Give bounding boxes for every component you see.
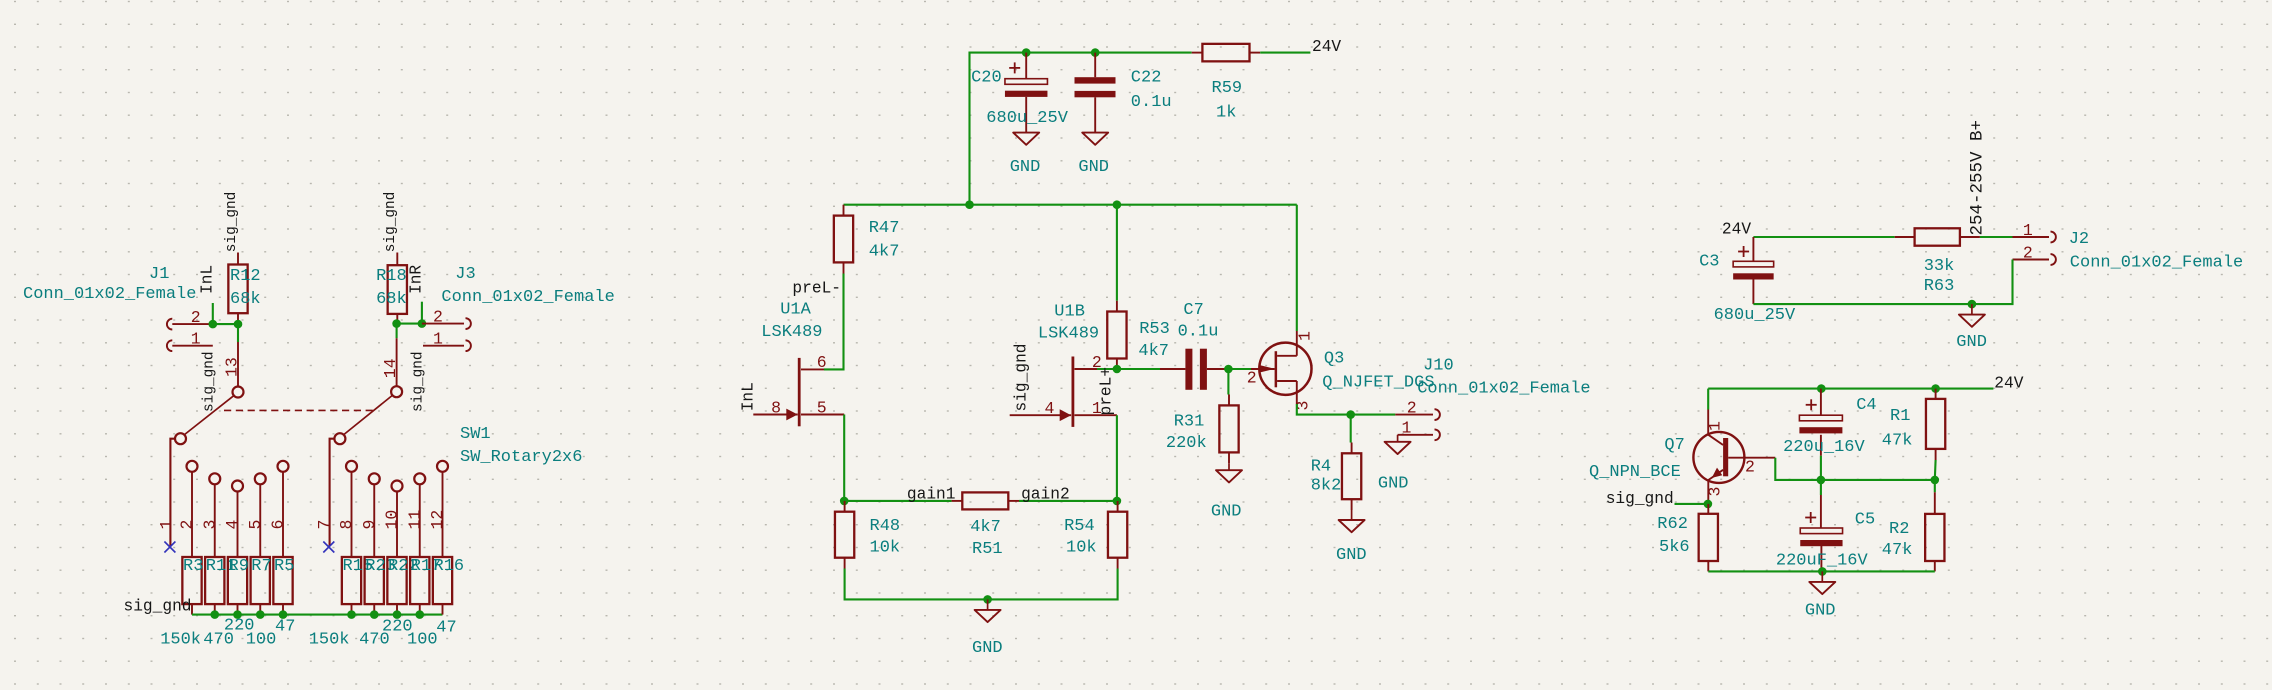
no-connect at SW1 pin 1 bbox=[164, 542, 175, 553]
wire 24V rail right bottom bbox=[1708, 388, 1993, 390]
svg-text:1: 1 bbox=[1706, 421, 1725, 431]
value 47 of R5 bbox=[275, 618, 295, 637]
junction on sig_gnd bus bbox=[233, 610, 242, 619]
junction at J1 pin 2 bbox=[209, 320, 218, 329]
pin number 2 of Q7 bbox=[1745, 457, 1755, 476]
svg-text:sig_gnd: sig_gnd bbox=[1606, 490, 1674, 508]
svg-text:R7: R7 bbox=[251, 557, 271, 576]
junction divider at R1 bottom bbox=[1931, 476, 1940, 485]
U1A source pin 5 bbox=[801, 414, 844, 416]
svg-text:J2: J2 bbox=[2069, 230, 2089, 249]
label J1 bbox=[149, 265, 169, 284]
label R17 bbox=[411, 557, 442, 576]
mechanical link dashed line of SW1 bbox=[224, 409, 375, 411]
svg-text:InL: InL bbox=[739, 382, 757, 411]
junction at R12 bottom bbox=[234, 320, 243, 329]
value 680u_25V of C3 bbox=[1714, 306, 1796, 325]
svg-text:1: 1 bbox=[157, 520, 176, 530]
svg-text:R2: R2 bbox=[1889, 520, 1909, 539]
wire sig_gnd to Q7 emitter bbox=[1675, 503, 1708, 505]
svg-text:2: 2 bbox=[1407, 398, 1417, 417]
value 68k of R12 bbox=[230, 290, 261, 309]
svg-text:GND: GND bbox=[1956, 333, 1987, 352]
Q3 internal drain line bbox=[1277, 331, 1297, 356]
value 220 of R9 bbox=[224, 617, 255, 636]
resistor R16 bbox=[433, 557, 452, 615]
Q7 emitter with arrow bbox=[1708, 468, 1723, 504]
pin number 12 of SW1 bbox=[428, 510, 447, 530]
svg-text:C22: C22 bbox=[1131, 69, 1162, 88]
pin number 6 of U1A bbox=[817, 353, 827, 372]
pin number 2 of U1B bbox=[1092, 353, 1102, 372]
net label sig_gnd at Q7 emitter bbox=[1606, 490, 1674, 508]
switch SW1 wiper arm B bbox=[344, 396, 392, 435]
net label InR at J3 bbox=[408, 265, 426, 294]
switch SW1 common contact B circle bbox=[334, 433, 345, 444]
junction on sig_gnd bus bbox=[210, 610, 219, 619]
label C5 bbox=[1855, 511, 1875, 530]
ground symbol below C20 bbox=[1013, 133, 1039, 145]
svg-text:GND: GND bbox=[1805, 602, 1836, 621]
pin number 8 of U1A bbox=[771, 398, 781, 417]
svg-text:4: 4 bbox=[223, 520, 242, 530]
label GND right block bbox=[1805, 602, 1836, 621]
pin number 7 of SW1 bbox=[315, 520, 334, 530]
resistor R59 bbox=[1192, 44, 1261, 62]
switch SW1 pin 14 bbox=[396, 338, 398, 386]
connector J1 pin 1 bbox=[167, 340, 213, 351]
svg-text:5: 5 bbox=[246, 520, 265, 530]
junction on sig_gnd bus right bbox=[415, 610, 424, 619]
label GND middle bbox=[972, 639, 1003, 658]
resistor R5 bbox=[273, 557, 292, 615]
value 10k of R48 bbox=[870, 538, 901, 557]
switch SW1 throw contact 10 bbox=[392, 481, 403, 558]
svg-text:1: 1 bbox=[1402, 419, 1412, 438]
svg-text:GND: GND bbox=[1378, 475, 1409, 494]
svg-text:2: 2 bbox=[191, 308, 201, 327]
junction at R18 bottom bbox=[392, 319, 401, 328]
pin number 2 of J1 bbox=[191, 308, 201, 327]
svg-text:GND: GND bbox=[972, 639, 1003, 658]
label Conn_01x02_Female of J10 bbox=[1417, 380, 1590, 399]
svg-text:6: 6 bbox=[269, 520, 288, 530]
wire InL stub at J1 bbox=[212, 303, 214, 324]
svg-text:R4: R4 bbox=[1311, 457, 1331, 476]
svg-text:Conn_01x02_Female: Conn_01x02_Female bbox=[1417, 380, 1590, 399]
svg-text:0.1u: 0.1u bbox=[1178, 323, 1219, 342]
svg-text:1: 1 bbox=[191, 330, 201, 349]
label J3 bbox=[455, 265, 475, 284]
value 10k of R54 bbox=[1066, 538, 1097, 557]
capacitor C20 bbox=[1005, 53, 1047, 133]
pin number 5 of U1A bbox=[817, 398, 827, 417]
transistor U1A body bar bbox=[798, 358, 801, 426]
svg-text:100: 100 bbox=[246, 631, 277, 650]
svg-text:68k: 68k bbox=[230, 290, 261, 309]
ground symbol below C22 bbox=[1082, 133, 1108, 145]
label C20 bbox=[971, 69, 1002, 88]
svg-text:GND: GND bbox=[1211, 503, 1242, 522]
svg-text:Conn_01x02_Female: Conn_01x02_Female bbox=[2070, 254, 2243, 273]
svg-text:R59: R59 bbox=[1212, 79, 1243, 98]
svg-text:sig_gnd: sig_gnd bbox=[1013, 344, 1031, 412]
svg-text:4k7: 4k7 bbox=[970, 518, 1001, 537]
value 47k of R2 bbox=[1882, 541, 1913, 560]
net label sig_gnd at J1 pin 1 bbox=[202, 352, 218, 412]
svg-text:14: 14 bbox=[381, 358, 400, 378]
connector J2 pin 2 bbox=[2013, 254, 2056, 265]
svg-text:2: 2 bbox=[1745, 457, 1755, 476]
resistor R23 bbox=[365, 557, 384, 615]
label R23 bbox=[365, 557, 396, 576]
junction middle GND node bbox=[983, 595, 992, 604]
svg-text:24V: 24V bbox=[1994, 375, 2023, 393]
svg-text:5: 5 bbox=[817, 398, 827, 417]
svg-text:Conn_01x02_Female: Conn_01x02_Female bbox=[23, 285, 196, 304]
label GND at J2 bbox=[1956, 333, 1987, 352]
label C3 bbox=[1699, 253, 1719, 272]
pin number 2 of J2 bbox=[2023, 243, 2033, 262]
value 0.1u of C7 bbox=[1178, 323, 1219, 342]
resistor R22 bbox=[387, 557, 406, 615]
resistor R12 bbox=[228, 253, 247, 325]
wire R63 to J2 pin 1 bbox=[1980, 236, 2013, 238]
svg-text:10k: 10k bbox=[870, 538, 901, 557]
resistor R54 bbox=[1108, 501, 1127, 569]
value 150k of R3 bbox=[160, 631, 201, 650]
svg-text:5k6: 5k6 bbox=[1659, 538, 1690, 557]
svg-text:J3: J3 bbox=[455, 265, 475, 284]
pin number 4 of SW1 bbox=[223, 520, 242, 530]
svg-text:68k: 68k bbox=[376, 290, 407, 309]
wire gain1 node to R51 bbox=[844, 500, 951, 502]
svg-text:SW_Rotary2x6: SW_Rotary2x6 bbox=[460, 448, 582, 467]
value 680u_25V of C20 bbox=[986, 109, 1068, 128]
svg-text:Conn_01x02_Female: Conn_01x02_Female bbox=[441, 288, 614, 307]
wire R18 junction to SW1 pin 14 bbox=[396, 324, 398, 339]
net label sig_gnd at J3 pin 1 bbox=[411, 352, 427, 412]
svg-text:9: 9 bbox=[360, 520, 379, 530]
label R7 bbox=[251, 557, 271, 576]
resistor R15 bbox=[342, 557, 361, 615]
svg-text:GND: GND bbox=[1078, 158, 1109, 177]
svg-text:sig_gnd: sig_gnd bbox=[411, 352, 427, 412]
label GND at J10 bbox=[1378, 475, 1409, 494]
svg-text:R9: R9 bbox=[229, 557, 249, 576]
value 4k7 of R51 bbox=[970, 518, 1001, 537]
label R9 bbox=[229, 557, 249, 576]
Q7 base bar bbox=[1723, 438, 1728, 476]
resistor R7 bbox=[251, 557, 270, 615]
svg-text:254-255V B+: 254-255V B+ bbox=[1968, 120, 1988, 236]
U1A drain pin 6 bbox=[801, 368, 824, 370]
svg-text:R63: R63 bbox=[1924, 277, 1955, 296]
pin number 2 of J10 bbox=[1407, 398, 1417, 417]
value Q_NPN_BCE of Q7 bbox=[1589, 463, 1681, 482]
switch SW1 common contact A circle bbox=[175, 433, 186, 444]
value 470 of R23 bbox=[359, 631, 390, 650]
label GND below C22 bbox=[1078, 158, 1109, 177]
label R47 bbox=[869, 219, 900, 238]
transistor Q3 circle bbox=[1259, 343, 1311, 395]
svg-text:4k7: 4k7 bbox=[1138, 342, 1169, 361]
U1A gate pin 8 with arrow bbox=[753, 409, 797, 421]
junction on sig_gnd bus right bbox=[347, 610, 356, 619]
svg-text:24V: 24V bbox=[1722, 221, 1751, 239]
svg-text:gain1: gain1 bbox=[907, 486, 956, 504]
resistor R63 bbox=[1895, 228, 1980, 245]
svg-text:J10: J10 bbox=[1423, 356, 1454, 375]
svg-text:8k2: 8k2 bbox=[1311, 477, 1342, 496]
svg-text:sig_gnd: sig_gnd bbox=[224, 192, 240, 252]
value LSK489 of U1B bbox=[1038, 325, 1099, 344]
switch SW1 throw contact 12 bbox=[437, 461, 448, 557]
U1B drain pin 2 bbox=[1075, 368, 1098, 370]
label R11 bbox=[206, 557, 237, 576]
pin number 4 of U1B bbox=[1045, 399, 1055, 418]
value 100 of R17 bbox=[407, 631, 438, 650]
label Conn_01x02_Female of J2 bbox=[2070, 254, 2243, 273]
svg-text:24V: 24V bbox=[1312, 38, 1341, 56]
svg-text:R16: R16 bbox=[434, 557, 465, 576]
connector J3 pin 2 bbox=[422, 318, 471, 329]
label R3 bbox=[183, 557, 203, 576]
wire bottom bus right block bbox=[1708, 570, 1935, 572]
wire U1B drain to R53 junction bbox=[1097, 368, 1117, 370]
junction at R4 top bbox=[1346, 410, 1355, 419]
label GND below R4 bbox=[1336, 546, 1367, 565]
svg-text:6: 6 bbox=[817, 353, 827, 372]
svg-text:J1: J1 bbox=[149, 265, 169, 284]
label R1 bbox=[1890, 407, 1910, 426]
label R62 bbox=[1657, 515, 1688, 534]
svg-text:GND: GND bbox=[1010, 158, 1041, 177]
pin number 2 of Q3 bbox=[1247, 369, 1257, 388]
wire divider bus bbox=[1821, 479, 1935, 481]
svg-text:7: 7 bbox=[315, 520, 334, 530]
svg-text:10k: 10k bbox=[1066, 538, 1097, 557]
svg-text:sig_gnd: sig_gnd bbox=[124, 598, 192, 616]
value 220u_16V of C4 bbox=[1783, 438, 1865, 457]
junction C20 top bbox=[1022, 48, 1031, 57]
junction supply bus left bbox=[965, 200, 974, 209]
value 4k7 of R47 bbox=[869, 243, 900, 262]
junction R1 top bbox=[1931, 384, 1940, 393]
svg-text:R18: R18 bbox=[376, 267, 407, 286]
resistor R47 bbox=[834, 205, 853, 274]
switch SW1 common B line to pin 7 bbox=[330, 439, 335, 546]
net label gain1 bbox=[907, 486, 956, 504]
label R48 bbox=[870, 517, 901, 536]
label R22 bbox=[388, 557, 419, 576]
switch SW1 throw contact 4 bbox=[232, 481, 243, 558]
ground symbol middle bbox=[975, 599, 1001, 622]
wire C4 bottom to divider bus bbox=[1820, 456, 1822, 480]
label C7 bbox=[1183, 301, 1203, 320]
svg-text:47: 47 bbox=[436, 619, 456, 638]
resistor R51 bbox=[952, 492, 1019, 509]
value 100 of R7 bbox=[246, 631, 277, 650]
net label sig_gnd above R12 bbox=[224, 192, 240, 252]
connector J1 pin 2 bbox=[167, 319, 213, 330]
resistor R48 bbox=[835, 501, 854, 569]
switch SW1 throw contact 3 bbox=[209, 473, 220, 557]
svg-text:3: 3 bbox=[1706, 487, 1725, 497]
svg-text:220u_16V: 220u_16V bbox=[1783, 438, 1865, 457]
svg-text:47k: 47k bbox=[1882, 541, 1913, 560]
svg-text:4: 4 bbox=[1045, 399, 1055, 418]
pin number 3 of SW1 bbox=[200, 520, 219, 530]
net label preL+ on U1B source wire bbox=[1098, 367, 1116, 416]
value 5k6 of R62 bbox=[1659, 538, 1690, 557]
value 8k2 of R4 bbox=[1311, 477, 1342, 496]
value 4k7 of R53 bbox=[1138, 342, 1169, 361]
wire C7 to Q3 gate bbox=[1228, 368, 1254, 370]
pin number 2 of J3 bbox=[433, 307, 443, 326]
resistor R4 bbox=[1342, 415, 1361, 510]
svg-text:C3: C3 bbox=[1699, 253, 1719, 272]
svg-text:2: 2 bbox=[1247, 369, 1257, 388]
wire sig_gnd bottom bus bbox=[192, 614, 443, 616]
pin number 3 of Q3 bbox=[1294, 401, 1313, 411]
pin number 1 of SW1 bbox=[157, 520, 176, 530]
svg-text:preL-: preL- bbox=[792, 280, 841, 298]
resistor R17 bbox=[410, 557, 429, 615]
svg-text:SW1: SW1 bbox=[460, 425, 491, 444]
label U1A bbox=[780, 301, 811, 320]
label R16 bbox=[434, 557, 465, 576]
resistor R11 bbox=[205, 557, 224, 615]
junction supply bus at R53 bbox=[1113, 200, 1122, 209]
svg-text:2: 2 bbox=[433, 307, 443, 326]
wire 24V rail down to Q7 collector bbox=[1707, 389, 1709, 410]
ground symbol below R31 bbox=[1216, 463, 1242, 482]
value 220uF_16V of C5 bbox=[1776, 552, 1869, 571]
net label preL- on R47 wire bbox=[792, 280, 841, 298]
Q7 collector pin 1 bbox=[1708, 410, 1723, 446]
value 470 of R11 bbox=[203, 631, 234, 650]
switch SW1 throw contact 8 bbox=[346, 461, 357, 557]
svg-text:33k: 33k bbox=[1924, 257, 1955, 276]
U1B source pin 1 bbox=[1075, 414, 1117, 416]
wire 24V top rail bbox=[970, 53, 1192, 205]
wire J1 pin2 to R12 bottom bbox=[213, 323, 238, 325]
pin number 1 of J1 bbox=[191, 330, 201, 349]
label U1B bbox=[1054, 303, 1085, 322]
svg-text:R1: R1 bbox=[1890, 407, 1910, 426]
junction gain1 node bbox=[840, 497, 849, 506]
svg-text:8: 8 bbox=[771, 398, 781, 417]
pin number 8 of SW1 bbox=[337, 520, 356, 530]
wire R48 bottom bus to R54 bbox=[845, 569, 1118, 600]
svg-text:R62: R62 bbox=[1657, 515, 1688, 534]
transistor U1B body bar bbox=[1072, 357, 1075, 427]
label GND below R31 bbox=[1211, 503, 1242, 522]
junction on sig_gnd bus right bbox=[370, 610, 379, 619]
connector J10 pin 2 bbox=[1395, 409, 1440, 420]
label Conn_01x02_Female of J3 bbox=[441, 288, 614, 307]
svg-text:GND: GND bbox=[1336, 546, 1367, 565]
svg-text:R47: R47 bbox=[869, 219, 900, 238]
value 220k of R31 bbox=[1166, 434, 1207, 453]
wire R59 to 24V label bbox=[1260, 52, 1310, 54]
junction bottom bus at C5 bbox=[1818, 567, 1827, 576]
svg-text:1: 1 bbox=[2023, 221, 2033, 240]
label R59 bbox=[1212, 79, 1243, 98]
pin number 11 of SW1 bbox=[405, 510, 424, 530]
net label 24V top bbox=[1312, 38, 1341, 56]
junction Q7 emitter node bbox=[1704, 500, 1713, 509]
resistor R1 bbox=[1926, 389, 1945, 480]
pin number 6 of SW1 bbox=[269, 520, 288, 530]
label R51 bbox=[972, 540, 1003, 559]
resistor R2 bbox=[1925, 480, 1944, 572]
wire middle supply bus bbox=[844, 204, 1297, 206]
svg-text:LSK489: LSK489 bbox=[761, 323, 822, 342]
junction gain2 node bbox=[1113, 497, 1122, 506]
svg-text:R54: R54 bbox=[1064, 517, 1095, 536]
net label sig_gnd at bottom bus bbox=[124, 598, 192, 616]
svg-text:R51: R51 bbox=[972, 540, 1003, 559]
pin number 10 of SW1 bbox=[383, 510, 402, 530]
svg-text:Q7: Q7 bbox=[1664, 436, 1684, 455]
connector J2 pin 1 bbox=[2013, 232, 2056, 243]
svg-text:0.1u: 0.1u bbox=[1131, 93, 1172, 112]
Q7 base pin 2 bbox=[1728, 457, 1775, 459]
switch SW1 rotor A circle bbox=[233, 387, 244, 398]
junction C22 top bbox=[1091, 48, 1100, 57]
label R63 bbox=[1924, 277, 1955, 296]
svg-text:InL: InL bbox=[199, 265, 217, 294]
junction C4 top bbox=[1817, 384, 1826, 393]
switch SW1 wiper arm A bbox=[185, 396, 234, 435]
net label sig_gnd above R18 bbox=[383, 192, 399, 252]
wire R18 bottom to J3 pin 2 bbox=[397, 323, 422, 325]
capacitor C22 bbox=[1075, 53, 1116, 133]
wire U1A source down to gain1 node bbox=[843, 415, 845, 501]
svg-text:InR: InR bbox=[408, 265, 426, 294]
svg-text:12: 12 bbox=[428, 510, 447, 530]
net label InL at J1 bbox=[199, 265, 217, 294]
wire U1B source down to gain2 bbox=[1116, 415, 1118, 501]
svg-text:11: 11 bbox=[405, 510, 424, 530]
svg-text:R12: R12 bbox=[230, 267, 261, 286]
connector J10 pin 1 bbox=[1398, 429, 1440, 440]
wire Q7 base to divider node bbox=[1775, 458, 1821, 480]
pin number 1 of Q7 bbox=[1706, 421, 1725, 431]
wire supply bus corner down to Q3 drain bbox=[1296, 205, 1298, 331]
label R53 bbox=[1139, 320, 1170, 339]
svg-text:1: 1 bbox=[433, 330, 443, 349]
svg-text:1: 1 bbox=[1296, 331, 1315, 341]
label R5 bbox=[274, 557, 294, 576]
pin number 1 of Q3 bbox=[1296, 331, 1315, 341]
junction on sig_gnd bus bbox=[279, 610, 288, 619]
wire preL+ node to C7 bbox=[1117, 368, 1160, 370]
svg-text:2: 2 bbox=[178, 520, 197, 530]
capacitor C7 bbox=[1160, 349, 1228, 390]
svg-text:R5: R5 bbox=[274, 557, 294, 576]
label SW_Rotary2x6 bbox=[460, 448, 582, 467]
value LSK489 of U1A bbox=[761, 323, 822, 342]
pin number 1 of J3 bbox=[433, 330, 443, 349]
svg-text:47k: 47k bbox=[1882, 432, 1913, 451]
resistor R3 bbox=[182, 557, 201, 615]
svg-text:680u_25V: 680u_25V bbox=[1714, 306, 1796, 325]
pin number 1 of U1B bbox=[1092, 399, 1102, 418]
pin number 1 of J10 bbox=[1402, 419, 1412, 438]
